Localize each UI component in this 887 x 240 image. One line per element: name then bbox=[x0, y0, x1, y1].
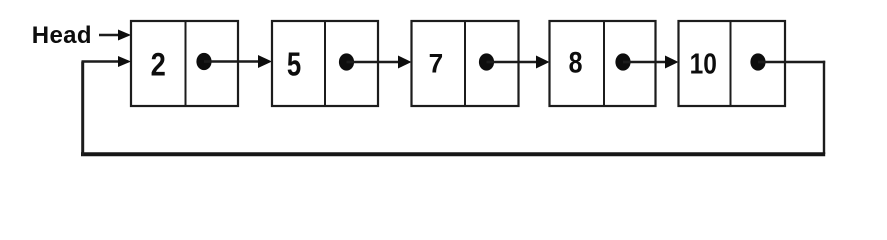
node2 box bbox=[272, 21, 378, 106]
arrow node4-to-node5 bbox=[623, 56, 679, 69]
arrow node1-to-node2 bbox=[204, 55, 272, 68]
arrow node3-to-node4 bbox=[487, 56, 550, 69]
arrow head-to-node1 bbox=[99, 30, 131, 41]
node5 pointer dot bbox=[750, 53, 765, 70]
svg-text:Head: Head bbox=[32, 22, 92, 49]
node3 box bbox=[412, 21, 519, 106]
node1 pointer dot bbox=[196, 53, 211, 70]
node4 divider bbox=[603, 21, 605, 106]
arrow node2-to-node3 bbox=[347, 56, 412, 69]
node4 pointer dot bbox=[615, 53, 630, 70]
node4 box bbox=[550, 21, 656, 106]
wire node5 to right edge bbox=[758, 61, 825, 63]
node2 divider bbox=[324, 21, 326, 106]
svg-text:7: 7 bbox=[429, 48, 444, 78]
svg-text:2: 2 bbox=[151, 48, 166, 84]
node1 box bbox=[131, 21, 238, 106]
node5 box bbox=[679, 21, 786, 106]
svg-text:5: 5 bbox=[287, 47, 301, 84]
node2 pointer dot bbox=[339, 53, 354, 70]
svg-text:8: 8 bbox=[569, 45, 583, 78]
wire bottom horizontal bbox=[81, 152, 825, 156]
node3 pointer dot bbox=[479, 53, 494, 70]
svg-text:10: 10 bbox=[690, 48, 717, 80]
node5 divider bbox=[730, 21, 732, 106]
node1 divider bbox=[185, 21, 187, 106]
arrow loop-to-node1 bbox=[82, 56, 132, 67]
wire left vertical up bbox=[81, 62, 84, 157]
wire right vertical down bbox=[823, 61, 825, 154]
node3 divider bbox=[464, 21, 466, 106]
